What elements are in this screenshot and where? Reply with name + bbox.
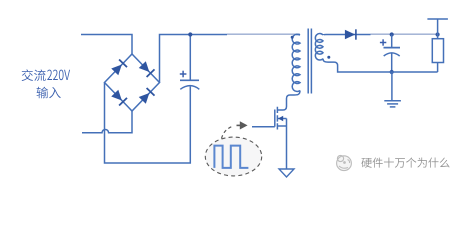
PWM square wave (214, 146, 248, 168)
Q1 body connection with arrow (277, 118, 286, 120)
C2 plus sign (380, 39, 386, 45)
wire: secondary rail (light AA segment) (371, 33, 438, 35)
T1 secondary polarity dot (327, 56, 330, 59)
MOSFET Q1 gate bar (274, 110, 276, 127)
wire: primary return to Q1 drain (277, 91, 300, 111)
wire: Q1 source down (286, 119, 288, 170)
wire: DC- from bridge left vertex to bottom rail (105, 83, 191, 164)
junction: C2 top node (390, 32, 394, 36)
wire: AC input line 1 (81, 35, 132, 55)
capacitor C1 (input bulk) (189, 35, 191, 81)
Q1 gate lead (252, 126, 275, 128)
wire: AC input line 2 with crossover hop (82, 111, 132, 133)
T1 core (308, 29, 311, 94)
bridge diode D1 (111, 59, 127, 75)
watermark logo (337, 155, 352, 170)
T1 primary polarity dot (291, 36, 294, 39)
junction: C2 bottom node (390, 70, 394, 74)
bridge diode D2 (138, 61, 154, 77)
Q1 source stub (277, 125, 286, 127)
bridge diode D4 (138, 88, 154, 104)
Q1 channel segments (276, 107, 278, 130)
ground: secondary (earth) (391, 72, 393, 100)
watermark text (361, 157, 449, 167)
output terminal bar (427, 19, 448, 35)
PWM controller dashed ellipse (205, 137, 261, 176)
capacitor C2 (output) (391, 35, 393, 48)
wire: secondary top to output (323, 34, 371, 37)
junction: R1 top node (436, 32, 440, 36)
wire: top rail (light AA segment) (227, 33, 300, 35)
ground: Q1 source (open triangle) (279, 169, 294, 177)
C1 plus sign (180, 71, 187, 78)
dashed arc from PWM to gate (222, 126, 234, 139)
bridge rectifier outline (105, 54, 160, 111)
T1 secondary winding (315, 34, 323, 61)
wire: DC+ riser and top rail (160, 35, 228, 83)
output diode D5 (345, 30, 355, 39)
bridge diode D3 (111, 89, 127, 105)
wire: secondary return rail (323, 59, 438, 72)
resistor R1 (load) (437, 35, 439, 39)
gray arrowhead to gate (237, 124, 241, 126)
transformer T1 primary winding (292, 34, 300, 91)
label: AC 220V input (22, 69, 46, 81)
junction: C1 top node (188, 32, 192, 36)
